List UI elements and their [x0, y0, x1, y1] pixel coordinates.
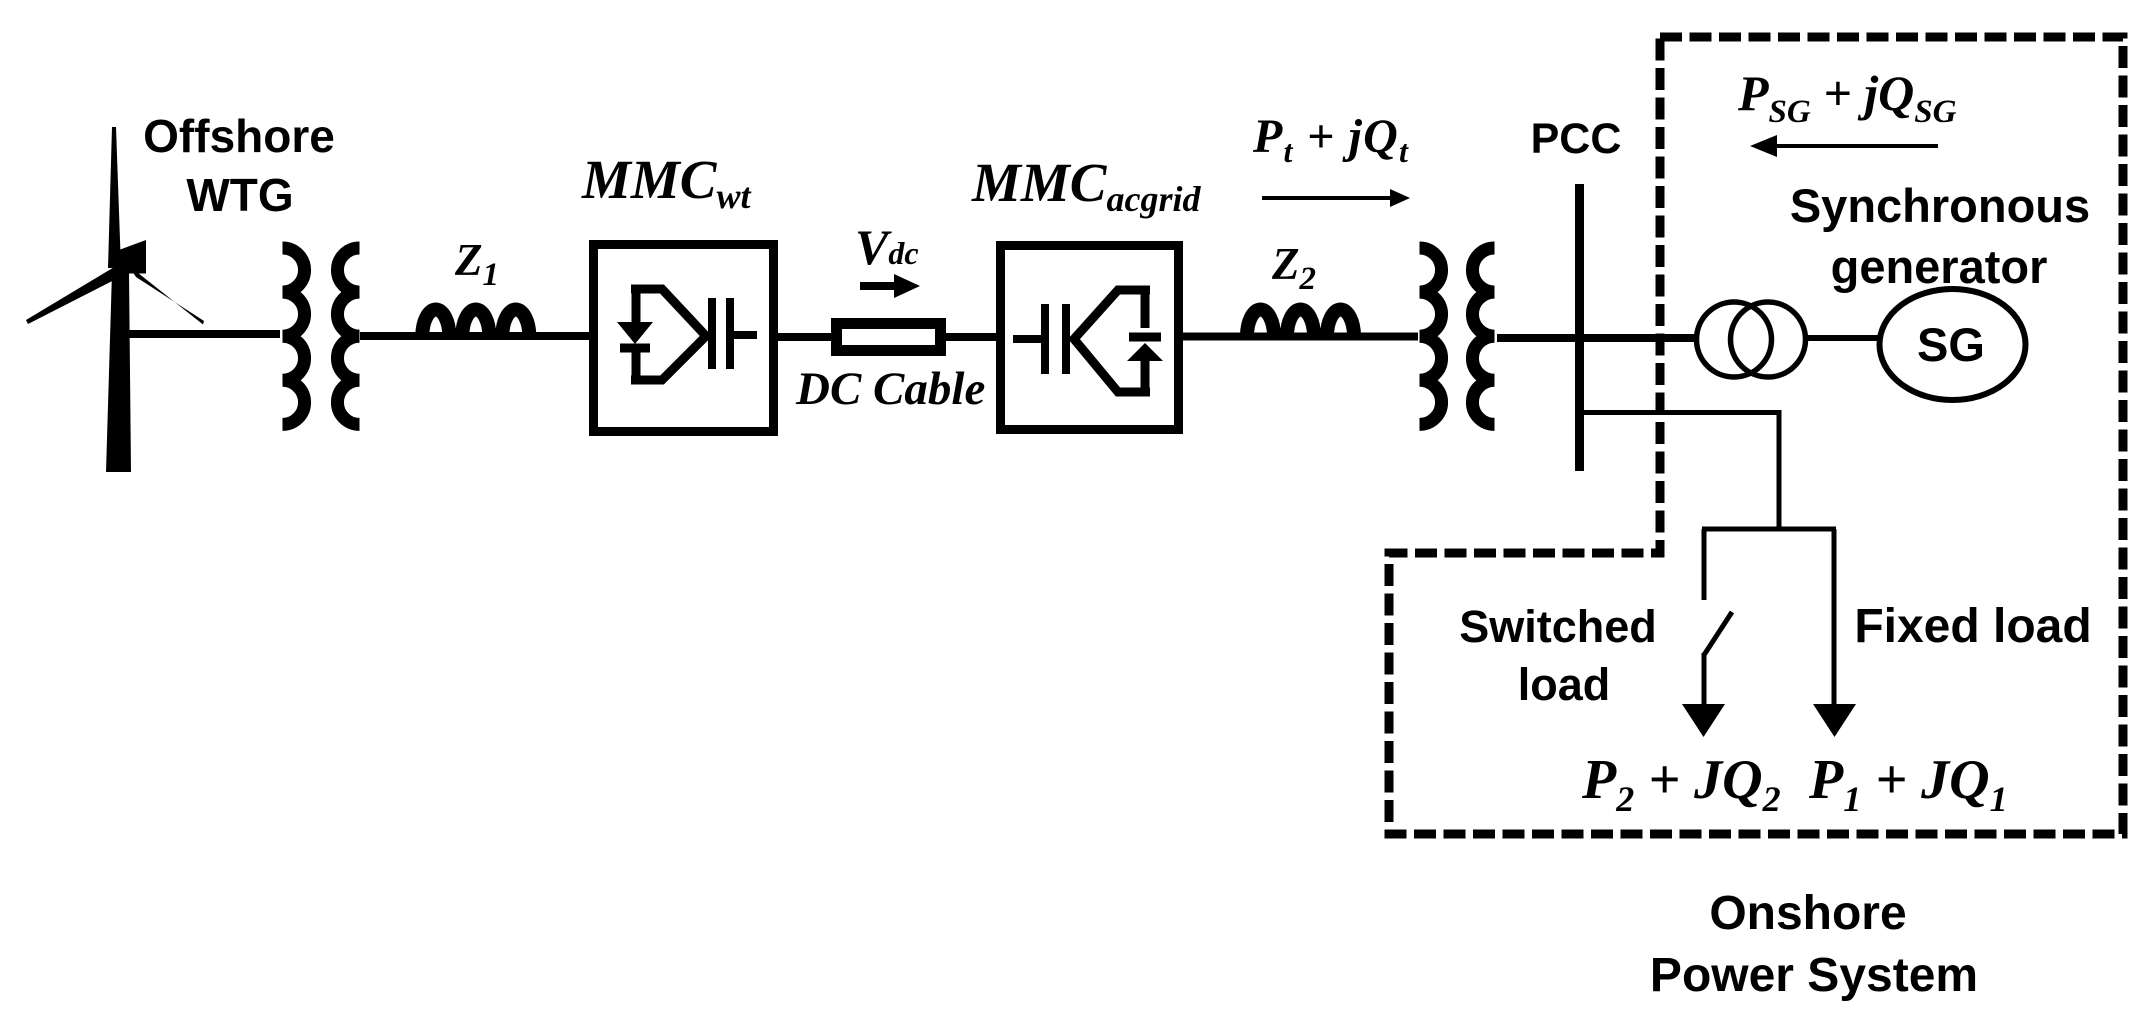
- svg-text:Fixed load: Fixed load: [1854, 600, 2091, 653]
- inductor Z2: [1247, 310, 1354, 337]
- converter box MMC_wt: [594, 245, 774, 432]
- wire turbine to T1: [122, 330, 280, 338]
- converter symbol MMC_wt: [631, 289, 757, 380]
- svg-text:SG: SG: [1917, 318, 1985, 371]
- svg-text:Onshore: Onshore: [1709, 887, 1906, 940]
- svg-text:Switched: Switched: [1459, 601, 1657, 652]
- dashed boundary Onshore Power System: [1389, 37, 2123, 834]
- converter symbol MMC_acgrid: [1013, 290, 1150, 392]
- converter box MMC_acgrid: [1001, 246, 1179, 430]
- svg-text:WTG: WTG: [186, 169, 293, 221]
- svg-text:Offshore: Offshore: [143, 110, 335, 162]
- svg-text:load: load: [1518, 659, 1611, 710]
- svg-text:DC Cable: DC Cable: [795, 363, 985, 415]
- fixed load branch: [1832, 529, 1837, 707]
- diode in MMC_wt: [617, 322, 653, 344]
- wire Z2 to T2: [1356, 333, 1418, 341]
- transformer circles: [1697, 302, 1772, 377]
- arrow P_t: [1262, 196, 1394, 200]
- transformer T1: [283, 248, 305, 424]
- inductor Z1: [422, 310, 529, 337]
- arrow V_dc: [860, 282, 898, 290]
- wire DC cable to MMC_acgrid: [941, 333, 1000, 341]
- synchronous generator SG: [1880, 289, 2026, 400]
- wire T2 to transformer circles: [1497, 334, 1698, 342]
- wind turbine WTG: [26, 127, 204, 472]
- PCC bus bar: [1575, 184, 1584, 471]
- svg-text:Synchronous: Synchronous: [1790, 179, 2090, 232]
- arrow P_SG: [1772, 144, 1938, 148]
- transformer T2: [1420, 248, 1442, 424]
- wire circles to SG: [1806, 335, 1880, 341]
- svg-text:PCC: PCC: [1531, 115, 1622, 163]
- wire Z1 to MMC_wt: [536, 332, 596, 340]
- svg-text:Pt + jQt: Pt + jQt: [1252, 110, 1409, 169]
- switch blade: [1704, 612, 1732, 655]
- svg-text:P1 + JQ1: P1 + JQ1: [1808, 749, 2008, 819]
- DC cable: [837, 324, 941, 351]
- branch wire from PCC: [1582, 410, 1782, 415]
- wire MMC_wt to DC cable: [777, 333, 838, 341]
- svg-text:Power System: Power System: [1650, 949, 1978, 1002]
- switched load branch: [1702, 529, 1707, 600]
- wire MMC_acgrid to Z2: [1182, 333, 1360, 341]
- diode in MMC_acgrid: [1127, 343, 1163, 361]
- svg-text:generator: generator: [1831, 240, 2048, 293]
- svg-text:P2 + JQ2: P2 + JQ2: [1581, 749, 1781, 819]
- wire T1 to Z1: [360, 332, 540, 340]
